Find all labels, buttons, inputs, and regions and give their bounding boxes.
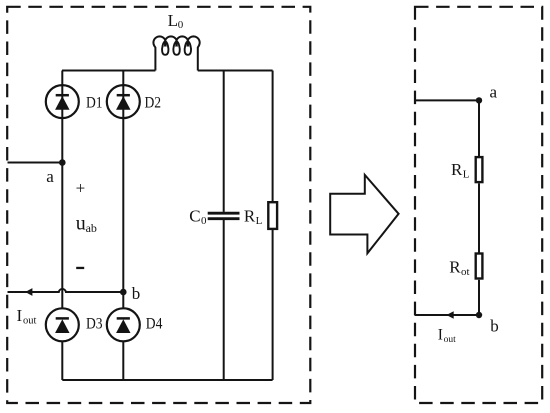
svg-text:D2: D2: [145, 94, 162, 111]
node b junction dot: [120, 289, 127, 296]
wire right branch middle (through node b down to D4): [122, 118, 124, 309]
right dashed enclosure: [415, 7, 542, 403]
inductor L0: [153, 36, 199, 70]
svg-text:0: 0: [178, 19, 184, 31]
svg-text:a: a: [46, 167, 54, 186]
wire RL branch lower: [272, 230, 274, 380]
label minus sign: [76, 267, 84, 269]
wire top rail left: [62, 70, 155, 72]
node a junction dot: [59, 159, 66, 166]
svg-text:L: L: [168, 11, 178, 30]
wire left branch middle (through node a down to D3): [61, 118, 63, 309]
left dashed enclosure: [7, 7, 310, 403]
svg-text:D1: D1: [86, 94, 103, 111]
wire right circuit: vertical branch: [478, 100, 480, 156]
capacitor C0 plates: [208, 213, 240, 219]
svg-text:D3: D3: [86, 315, 103, 332]
wire top rail right: [198, 70, 273, 72]
resistor RL (equivalent circuit): [476, 157, 483, 182]
svg-text:R: R: [451, 160, 463, 179]
wire right branch upper: [122, 71, 124, 86]
node a junction dot (right circuit): [476, 97, 482, 103]
svg-text:L: L: [463, 169, 470, 181]
wire capacitor branch upper: [223, 71, 225, 212]
svg-text:u: u: [76, 213, 86, 235]
Iout arrow head (right circuit): [446, 311, 453, 318]
wire left branch lower: [61, 341, 63, 380]
svg-text:R: R: [244, 206, 256, 225]
svg-text:R: R: [449, 258, 461, 277]
svg-text:I: I: [438, 326, 443, 343]
svg-text:b: b: [132, 284, 141, 303]
svg-text:0: 0: [201, 215, 207, 227]
wire terminal a: [8, 162, 63, 164]
svg-text:+: +: [76, 178, 86, 197]
diode D1: [46, 85, 79, 118]
svg-text:out: out: [444, 335, 457, 345]
wire Rot to node b: [478, 280, 480, 315]
wire right circuit: node b lead: [415, 314, 480, 316]
resistor Rot: [476, 254, 483, 279]
wire right circuit: node a lead: [415, 99, 480, 101]
diode D3: [46, 308, 79, 341]
inductor L0 loops: [162, 42, 191, 55]
wire RL branch upper: [272, 71, 274, 202]
wire left branch upper: [61, 71, 63, 86]
Iout arrow head (left circuit): [25, 288, 32, 296]
svg-text:C: C: [189, 206, 200, 225]
svg-text:L: L: [256, 215, 263, 227]
svg-text:ab: ab: [86, 221, 97, 235]
node b junction dot (right circuit): [476, 312, 482, 318]
wire right branch lower: [122, 341, 124, 380]
svg-text:ot: ot: [461, 266, 470, 278]
svg-text:a: a: [490, 83, 498, 102]
diode D2: [107, 85, 140, 118]
svg-text:b: b: [490, 317, 499, 336]
svg-text:D4: D4: [146, 315, 163, 332]
wire between RL and Rot: [478, 183, 480, 252]
svg-text:out: out: [23, 316, 37, 327]
wire terminal b with hop over left branch: [8, 289, 124, 292]
big block arrow: [330, 175, 398, 253]
svg-text:I: I: [17, 306, 23, 325]
wire bottom rail: [62, 379, 272, 381]
resistor RL (left circuit): [268, 202, 277, 229]
wire capacitor branch lower: [223, 220, 225, 380]
diode D4: [107, 308, 140, 341]
